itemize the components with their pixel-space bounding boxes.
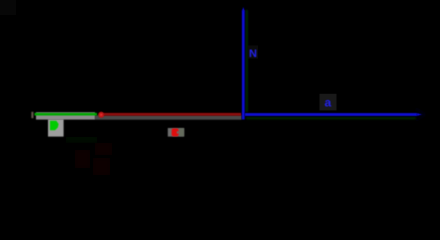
ground strip (dark gray, under track) <box>95 115 242 119</box>
faint dark streak artifact <box>75 150 90 168</box>
dark green companion vertical line <box>246 10 248 112</box>
svg-text:N: N <box>249 48 257 60</box>
ground strip light section (left) <box>36 112 95 119</box>
label N background <box>248 46 259 59</box>
faint dark green bar artifact <box>66 137 97 143</box>
vector a arrowhead wisp upper <box>416 108 425 115</box>
faint dark maroon blob artifact <box>95 143 112 155</box>
svg-text:a: a <box>325 96 332 110</box>
red track segment <box>104 113 242 116</box>
red dot marker bright center <box>100 114 102 116</box>
faint dark maroon block artifact lower <box>93 158 110 175</box>
red dot marker <box>98 112 104 118</box>
block B (small gray box) <box>168 128 184 137</box>
block B olive right part <box>179 128 184 136</box>
faint corner square <box>0 0 16 15</box>
vector a horizontal blue line <box>245 113 417 116</box>
vector N tip taper <box>242 7 245 11</box>
block A (gray box) <box>48 119 64 136</box>
vector N vertical blue line <box>242 11 245 120</box>
label a background <box>320 94 337 111</box>
tick mark at left end <box>31 112 33 118</box>
red icon notch <box>177 131 179 133</box>
green velocity segment <box>35 113 98 116</box>
green icon in block A <box>50 121 59 130</box>
vector a arrowhead wisp lower <box>416 114 425 121</box>
red icon in block B <box>172 128 179 136</box>
dark green companion horizontal line <box>246 117 416 119</box>
faint dark blob artifact left <box>58 143 95 160</box>
vector a arrow tip <box>417 113 423 116</box>
